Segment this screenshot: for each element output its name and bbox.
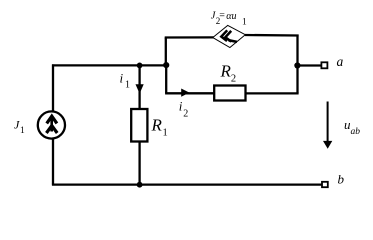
terminal a [321, 62, 327, 68]
svg-text:1: 1 [163, 128, 168, 139]
wire: top branch left horizontal segment [165, 36, 214, 38]
svg-text:2: 2 [183, 109, 188, 120]
svg-text:=: = [219, 10, 225, 21]
wire: R2 branch left horizontal [165, 92, 214, 94]
junction node: mid wire / R1 branch [137, 63, 143, 69]
current source J1 [38, 111, 65, 138]
wire: top branch right horizontal segment [245, 34, 299, 37]
svg-text:1: 1 [20, 126, 25, 136]
svg-text:b: b [338, 171, 345, 186]
wire: middle horizontal (left rail top) [52, 64, 166, 66]
wire: R2 branch left vertical drop [165, 64, 167, 93]
junction node: bottom wire / R1 [137, 182, 143, 188]
wire: R1 branch vertical [138, 65, 140, 184]
dependent current source J2 (diamond) [213, 25, 246, 47]
svg-text:1: 1 [242, 18, 247, 28]
svg-text:ab: ab [351, 127, 361, 137]
resistor R2 [214, 86, 245, 101]
svg-text:αu: αu [226, 11, 236, 22]
svg-text:1: 1 [125, 80, 130, 91]
junction node: mid wire / top branch [163, 62, 169, 68]
svg-text:i: i [120, 71, 124, 86]
svg-text:R: R [220, 62, 232, 81]
wire: bottom horizontal rail [52, 183, 322, 185]
svg-text:2: 2 [231, 74, 236, 85]
wire: R2 branch right horizontal [246, 92, 299, 94]
wire: terminal a lead [297, 64, 321, 66]
voltage arrow u_ab [323, 102, 332, 149]
resistor R1 [131, 109, 147, 142]
svg-text:i: i [179, 99, 183, 114]
terminal b [322, 182, 328, 187]
svg-text:R: R [151, 116, 163, 135]
wire: left vertical rail [52, 64, 54, 184]
current arrow i2 [181, 89, 189, 97]
current arrow i1 [136, 84, 144, 93]
junction node: right vertical / terminal a lead [294, 62, 300, 68]
wire: top branch left vertical [165, 38, 167, 66]
svg-text:a: a [337, 54, 344, 69]
wire: right vertical (top wire to R2 branch) [296, 35, 298, 94]
